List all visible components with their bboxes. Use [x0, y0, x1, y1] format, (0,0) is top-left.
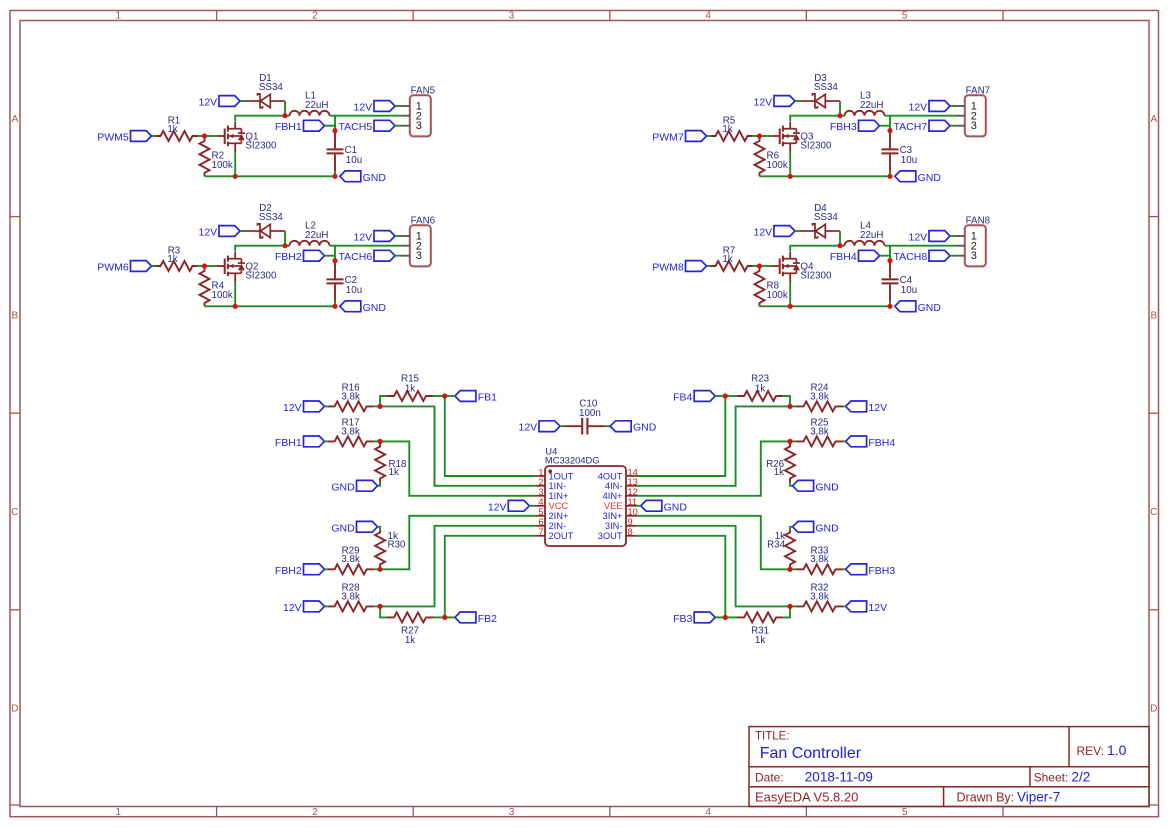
- svg-text:1IN-: 1IN-: [549, 481, 567, 491]
- resistor R5 1k: [711, 131, 753, 141]
- wire: [760, 135, 773, 137]
- net flag 12V connector feed: [929, 101, 950, 112]
- wire: [725, 395, 737, 397]
- svg-text:22uH: 22uH: [860, 230, 883, 241]
- svg-text:12V: 12V: [283, 402, 302, 414]
- svg-text:3: 3: [416, 250, 422, 262]
- net flag 12V: [846, 401, 867, 412]
- wire: [707, 265, 711, 267]
- pin wires FAN8: [956, 235, 965, 237]
- transistor Q3 SI2300: [772, 135, 780, 137]
- net flag FB3: [694, 612, 715, 623]
- wire inductor to connector pin 2: [330, 245, 401, 247]
- net flag FBH3: [859, 120, 880, 131]
- wire: [152, 265, 156, 267]
- resistor R33 3.8k: [797, 564, 843, 574]
- svg-text:1k: 1k: [722, 254, 732, 265]
- svg-text:SI2300: SI2300: [245, 140, 277, 151]
- wire: [325, 568, 328, 570]
- wire: [840, 115, 845, 117]
- svg-text:GND: GND: [633, 422, 657, 434]
- wire: [380, 606, 387, 617]
- resistor R4 100k: [200, 268, 210, 307]
- wire: [285, 245, 290, 247]
- junction gate node Q1: [202, 133, 207, 138]
- junction switch node: [282, 113, 287, 118]
- wire: [783, 396, 790, 406]
- inductor L4 22uH: [845, 241, 885, 246]
- svg-text:9: 9: [628, 517, 633, 527]
- net flag FB2: [455, 612, 476, 623]
- op-amp pin 3 1IN+: [535, 495, 545, 497]
- junction feedback divider top: [787, 404, 792, 409]
- svg-text:12V: 12V: [354, 102, 373, 114]
- svg-text:8: 8: [628, 527, 633, 537]
- net flag FBH3: [846, 564, 867, 575]
- svg-text:Date:: Date:: [755, 770, 784, 784]
- svg-text:SS34: SS34: [259, 212, 284, 223]
- svg-text:2: 2: [312, 11, 318, 22]
- capacitor C1 10u: [334, 131, 336, 149]
- resistor R28 3.8k: [328, 601, 374, 611]
- junction gate node Q4: [757, 263, 762, 268]
- junction output node: [887, 258, 892, 263]
- net flag 12V: [304, 401, 325, 412]
- wire diode to switch node: [839, 231, 841, 246]
- wire: [790, 405, 797, 407]
- svg-text:1: 1: [116, 11, 122, 22]
- svg-text:10u: 10u: [901, 155, 917, 166]
- svg-text:B: B: [1150, 311, 1157, 322]
- net flag 12V: [846, 601, 867, 612]
- wire ground rail: [760, 175, 891, 177]
- junction source to ground rail: [233, 174, 238, 179]
- svg-text:3IN-: 3IN-: [605, 521, 623, 531]
- op-amp pin 5 2IN+: [535, 515, 545, 517]
- svg-text:SI2300: SI2300: [800, 140, 832, 151]
- svg-text:3.8k: 3.8k: [810, 426, 829, 437]
- junction gate node Q2: [202, 263, 207, 268]
- resistor R25 3.8k: [797, 436, 843, 446]
- svg-text:FAN6: FAN6: [411, 216, 436, 227]
- wire output node vertical: [334, 116, 336, 131]
- net flag GND: [357, 521, 378, 532]
- svg-text:GND: GND: [815, 481, 839, 493]
- svg-text:10u: 10u: [346, 285, 362, 296]
- junction feedback divider top: [378, 404, 383, 409]
- svg-text:1IN+: 1IN+: [549, 491, 569, 501]
- svg-text:1k: 1k: [167, 254, 177, 265]
- wire: [325, 405, 328, 407]
- op-amp pin 1 1OUT: [535, 475, 545, 477]
- svg-text:6: 6: [538, 517, 543, 527]
- net flag 12V connector feed: [929, 231, 950, 242]
- op-amp pin 9 3IN-: [626, 525, 636, 527]
- net flag FBH2: [304, 250, 325, 261]
- wire: [240, 230, 246, 232]
- wire diode to switch node: [284, 101, 286, 116]
- junction lower divider: [378, 604, 383, 609]
- svg-text:REV:: REV:: [1077, 744, 1105, 758]
- svg-text:FBH4: FBH4: [830, 251, 857, 263]
- wire: [880, 255, 891, 257]
- wire 2IN- pin: [635, 526, 790, 607]
- svg-text:Sheet:: Sheet:: [1034, 770, 1069, 784]
- svg-text:3.8k: 3.8k: [341, 591, 360, 602]
- net flag TACH6: [374, 250, 395, 261]
- svg-text:3OUT: 3OUT: [598, 531, 623, 541]
- resistor R7 1k: [711, 261, 753, 271]
- net flag FBH2: [304, 564, 325, 575]
- resistor R29 3.8k: [328, 564, 374, 574]
- svg-text:GND: GND: [331, 481, 355, 493]
- wire: [950, 105, 956, 107]
- resistor R32 3.8k: [797, 601, 843, 611]
- net flag GND: [793, 480, 814, 491]
- svg-text:FBH3: FBH3: [868, 565, 895, 577]
- resistor R17 3.8k: [328, 436, 374, 446]
- svg-text:3: 3: [509, 11, 515, 22]
- junction FB2: [442, 615, 447, 620]
- junction cap to ground rail: [332, 174, 337, 179]
- net flag FBH4: [859, 250, 880, 261]
- wire: [205, 265, 218, 267]
- svg-text:FBH1: FBH1: [275, 121, 302, 133]
- junction FBH2 divider: [378, 567, 383, 572]
- svg-text:14: 14: [628, 467, 638, 477]
- net flag 12V at VCC: [508, 500, 529, 511]
- net flag FB1: [455, 391, 476, 402]
- svg-text:A: A: [11, 114, 18, 125]
- svg-text:SS34: SS34: [259, 82, 284, 93]
- net flag PWM5: [131, 131, 152, 142]
- svg-text:D: D: [11, 704, 18, 715]
- junction switch node: [837, 243, 842, 248]
- svg-text:3.8k: 3.8k: [341, 426, 360, 437]
- wire: [395, 255, 401, 257]
- net flag GND: [895, 171, 916, 182]
- wire: [795, 230, 801, 232]
- net flag PWM6: [131, 261, 152, 272]
- op-amp pin 4 VCC: [535, 505, 545, 507]
- svg-text:12V: 12V: [354, 232, 373, 244]
- wire: [950, 235, 956, 237]
- junction output node: [332, 128, 337, 133]
- wire OUT pin: [445, 396, 535, 476]
- wire: [395, 235, 401, 237]
- junction cap to ground rail: [332, 304, 337, 309]
- svg-text:3: 3: [416, 120, 422, 132]
- op-amp pin 14 4OUT: [626, 475, 636, 477]
- wire: [380, 396, 387, 406]
- wire inductor to connector pin 2: [330, 115, 401, 117]
- net flag 12V: [304, 601, 325, 612]
- wire: [529, 505, 535, 507]
- svg-text:100k: 100k: [212, 290, 233, 301]
- op-amp pin 6 2IN-: [535, 525, 545, 527]
- svg-text:12V: 12V: [199, 97, 218, 109]
- wire: [950, 125, 956, 127]
- junction output node: [887, 128, 892, 133]
- svg-text:4OUT: 4OUT: [598, 471, 623, 481]
- svg-text:PWM5: PWM5: [97, 132, 129, 144]
- svg-text:C: C: [11, 507, 18, 518]
- capacitor C2 10u: [334, 261, 336, 279]
- svg-text:A: A: [1150, 114, 1157, 125]
- svg-text:1k: 1k: [722, 124, 732, 135]
- junction FBH divider: [787, 439, 792, 444]
- svg-text:100k: 100k: [212, 160, 233, 171]
- svg-text:R30: R30: [388, 540, 407, 551]
- junction switch node: [282, 243, 287, 248]
- wire IN+ pin: [635, 441, 790, 495]
- svg-text:5: 5: [902, 807, 908, 818]
- svg-text:PWM8: PWM8: [652, 262, 684, 274]
- wire source to ground rail: [234, 273, 236, 282]
- wire drain to switch node: [234, 252, 236, 259]
- svg-text:R34: R34: [767, 540, 786, 551]
- wire: [325, 440, 328, 442]
- resistor R24 3.8k: [797, 401, 843, 411]
- op-amp pin 10 3IN+: [626, 515, 636, 517]
- svg-text:SS34: SS34: [814, 212, 839, 223]
- junction cap to ground rail: [887, 174, 892, 179]
- net flag FB4: [694, 391, 715, 402]
- svg-text:3.8k: 3.8k: [810, 554, 829, 565]
- svg-text:GND: GND: [918, 302, 942, 314]
- wire inductor to connector pin 2: [885, 115, 956, 117]
- junction FBH divider: [378, 439, 383, 444]
- svg-text:Drawn By:: Drawn By:: [957, 791, 1015, 805]
- wire IN- pin: [380, 406, 535, 485]
- wire: [790, 568, 797, 570]
- svg-text:FB1: FB1: [478, 392, 497, 404]
- connector FAN8: [965, 225, 986, 266]
- svg-text:GND: GND: [815, 522, 839, 534]
- resistor R30 1k (vertical): [378, 527, 381, 530]
- wire: [325, 605, 328, 607]
- svg-text:FB3: FB3: [673, 613, 692, 625]
- svg-text:PWM6: PWM6: [97, 262, 129, 274]
- wire output node vertical: [889, 116, 891, 131]
- svg-text:1.0: 1.0: [1107, 742, 1127, 758]
- net flag 12V diode feed: [219, 96, 240, 107]
- wire: [843, 568, 846, 570]
- svg-text:1: 1: [116, 807, 122, 818]
- net flag 12V connector feed: [374, 101, 395, 112]
- svg-text:12V: 12V: [519, 422, 538, 434]
- wire: [707, 135, 711, 137]
- svg-text:12V: 12V: [909, 102, 928, 114]
- diode D3 SS34: [801, 100, 816, 102]
- op-amp U4 pin-1 mark: [548, 470, 552, 474]
- diode D2 SS34: [246, 230, 261, 232]
- wire 2IN- pin: [380, 526, 535, 607]
- svg-text:PWM7: PWM7: [652, 132, 684, 144]
- svg-text:3: 3: [509, 807, 515, 818]
- svg-text:100n: 100n: [579, 408, 601, 419]
- svg-text:4IN-: 4IN-: [605, 481, 623, 491]
- net flag GND at VEE: [641, 500, 662, 511]
- svg-text:1k: 1k: [405, 383, 415, 394]
- wire: [433, 616, 445, 618]
- net flag 12V at C10: [539, 421, 560, 432]
- svg-text:B: B: [11, 311, 18, 322]
- wire: [374, 405, 381, 407]
- svg-text:FAN5: FAN5: [411, 86, 436, 97]
- svg-text:2018-11-09: 2018-11-09: [805, 769, 873, 784]
- wire: [325, 125, 336, 127]
- net flag FBH1: [304, 436, 325, 447]
- svg-text:12V: 12V: [754, 97, 773, 109]
- svg-text:VCC: VCC: [549, 501, 569, 511]
- junction source to ground rail: [233, 304, 238, 309]
- resistor R16 3.8k: [328, 401, 374, 411]
- svg-text:22uH: 22uH: [860, 100, 883, 111]
- svg-text:4: 4: [705, 807, 711, 818]
- wire diode to switch node: [284, 231, 286, 246]
- resistor R34 1k (vertical): [790, 527, 793, 530]
- svg-text:1k: 1k: [755, 383, 765, 394]
- junction cap to ground rail: [887, 304, 892, 309]
- wire: [840, 245, 845, 247]
- svg-text:1k: 1k: [774, 467, 784, 478]
- svg-text:Viper-7: Viper-7: [1017, 790, 1060, 805]
- svg-text:FBH1: FBH1: [275, 437, 302, 449]
- inductor L1 22uH: [290, 111, 330, 116]
- svg-text:VEE: VEE: [604, 501, 623, 511]
- svg-text:GND: GND: [331, 522, 355, 534]
- wire: [240, 100, 246, 102]
- svg-text:SS34: SS34: [814, 82, 839, 93]
- svg-text:1OUT: 1OUT: [549, 471, 574, 481]
- wire ground rail: [760, 305, 891, 307]
- wire: [198, 265, 205, 267]
- wire: [950, 255, 956, 257]
- net flag TACH7: [929, 120, 950, 131]
- junction output node: [332, 258, 337, 263]
- wire: [334, 301, 336, 306]
- wire: [445, 616, 455, 618]
- transistor Q1 SI2300: [217, 135, 225, 137]
- svg-text:FBH2: FBH2: [275, 251, 302, 263]
- wire R to GND flag: [378, 482, 381, 486]
- wire OUT pin: [635, 396, 725, 476]
- junction lower divider: [787, 604, 792, 609]
- capacitor C4 10u: [889, 261, 891, 279]
- wire: [715, 395, 725, 397]
- net flag GND: [340, 171, 361, 182]
- svg-text:12: 12: [628, 487, 638, 497]
- svg-text:3: 3: [971, 120, 977, 132]
- resistor R6 100k: [755, 138, 765, 177]
- svg-text:100k: 100k: [767, 160, 788, 171]
- wire source to ground rail: [789, 143, 791, 152]
- junction source to ground rail: [788, 174, 793, 179]
- wire: [605, 425, 610, 427]
- svg-text:FBH3: FBH3: [830, 121, 857, 133]
- net flag TACH5: [374, 120, 395, 131]
- net flag GND at C10: [610, 421, 631, 432]
- svg-text:C: C: [1150, 507, 1157, 518]
- wire: [205, 135, 218, 137]
- wire IN- pin: [635, 406, 790, 485]
- svg-text:12V: 12V: [909, 232, 928, 244]
- wire: [374, 440, 381, 442]
- svg-text:TACH5: TACH5: [339, 121, 373, 133]
- svg-text:2: 2: [312, 807, 318, 818]
- svg-text:Fan Controller: Fan Controller: [760, 745, 862, 762]
- wire: [325, 255, 336, 257]
- capacitor C3 10u: [889, 131, 891, 149]
- pin wires FAN6: [401, 235, 410, 237]
- svg-text:5: 5: [538, 507, 543, 517]
- wire: [334, 171, 336, 176]
- wire: [395, 105, 401, 107]
- junction FBH2 divider: [787, 567, 792, 572]
- op-amp U4 MC33204DG: [545, 466, 626, 546]
- svg-text:12V: 12V: [283, 602, 302, 614]
- wire diode to switch node: [839, 101, 841, 116]
- net flag 12V diode feed: [219, 226, 240, 237]
- wire inductor to connector pin 2: [885, 245, 956, 247]
- svg-text:FBH2: FBH2: [275, 565, 302, 577]
- op-amp pin 11 VEE: [626, 505, 636, 507]
- wire: [790, 440, 797, 442]
- wire: [843, 605, 846, 607]
- svg-text:2IN+: 2IN+: [549, 511, 569, 521]
- op-amp pin 13 4IN-: [626, 485, 636, 487]
- wire drain to switch node: [234, 122, 236, 129]
- svg-text:12V: 12V: [488, 501, 507, 513]
- svg-text:FAN8: FAN8: [966, 216, 991, 227]
- pin wires FAN7: [956, 105, 965, 107]
- ruler ticks right: [1149, 216, 1159, 218]
- svg-text:5: 5: [902, 11, 908, 22]
- svg-text:TACH7: TACH7: [894, 121, 928, 133]
- svg-text:3.8k: 3.8k: [341, 391, 360, 402]
- svg-text:GND: GND: [363, 172, 387, 184]
- wire: [790, 605, 797, 607]
- svg-text:10u: 10u: [901, 285, 917, 296]
- junction gate node Q3: [757, 133, 762, 138]
- svg-text:TACH8: TACH8: [894, 251, 928, 263]
- svg-text:D: D: [1150, 704, 1157, 715]
- svg-text:2/2: 2/2: [1072, 769, 1091, 784]
- svg-text:1k: 1k: [389, 467, 399, 478]
- svg-text:12V: 12V: [754, 227, 773, 239]
- svg-text:FB4: FB4: [673, 392, 692, 404]
- net flag 12V diode feed: [774, 96, 795, 107]
- svg-text:100k: 100k: [767, 290, 788, 301]
- connector FAN5: [410, 95, 431, 136]
- svg-text:22uH: 22uH: [305, 230, 328, 241]
- junction FB1: [442, 393, 447, 398]
- wire: [889, 171, 891, 176]
- svg-text:4: 4: [705, 11, 711, 22]
- junction source to ground rail: [788, 304, 793, 309]
- net flag 12V diode feed: [774, 226, 795, 237]
- svg-text:3: 3: [971, 250, 977, 262]
- svg-text:GND: GND: [664, 501, 688, 513]
- svg-text:12V: 12V: [199, 227, 218, 239]
- svg-text:TITLE:: TITLE:: [755, 731, 790, 743]
- net flag PWM7: [686, 131, 707, 142]
- svg-text:1: 1: [538, 467, 543, 477]
- op-amp pin 8 3OUT: [626, 535, 636, 537]
- wire 2OUT pin: [635, 536, 725, 618]
- net flag GND: [340, 301, 361, 312]
